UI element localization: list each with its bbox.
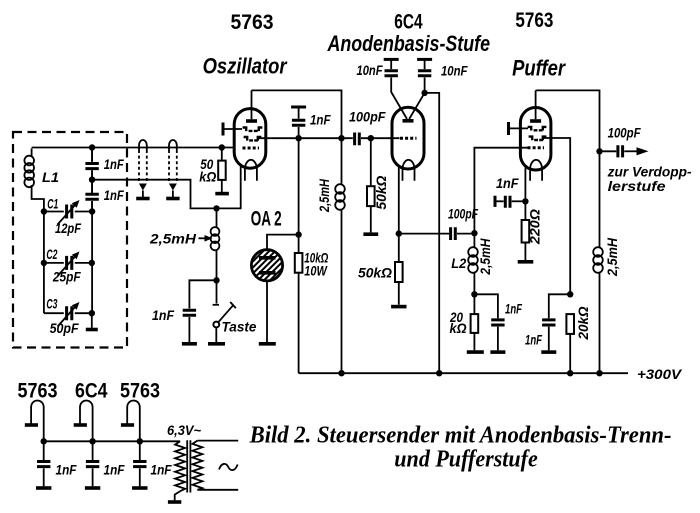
ground (osc grid leak)	[215, 192, 229, 196]
svg-text:10nF: 10nF	[441, 63, 468, 79]
svg-text:100pF: 100pF	[349, 109, 386, 125]
svg-text:5763: 5763	[18, 380, 58, 403]
variable capacitor C3 50pF	[58, 302, 80, 327]
shielded feedthrough 2	[166, 140, 179, 199]
svg-text:Puffer: Puffer	[512, 56, 566, 81]
ground (key)	[208, 342, 225, 346]
node tank tap	[89, 177, 95, 183]
resistor 10kΩ 10W	[295, 253, 303, 373]
capacitor 1nF (heater 1)	[36, 441, 51, 488]
node key junction	[213, 277, 219, 283]
capacitor 1nF (tank lower)	[85, 194, 98, 211]
svg-text:1nF: 1nF	[496, 175, 519, 191]
node grid wire / 50k junction	[219, 144, 225, 150]
capacitor 1nF (key bypass)	[183, 280, 217, 342]
capacitor 1nF (tank upper)	[85, 148, 98, 193]
wire 6C4 cathode output	[399, 233, 449, 235]
ground (6C4 grid)	[363, 232, 378, 236]
resistor 20kΩ (puffer grid leak)	[471, 294, 479, 350]
svg-text:1nF: 1nF	[56, 462, 77, 478]
svg-text:1nF: 1nF	[505, 301, 522, 317]
svg-text:2,5mH: 2,5mH	[604, 237, 620, 277]
capacitor 100pF (output) with arrow zur Verdopplerstufe	[600, 145, 649, 157]
ground (20k)	[467, 350, 484, 354]
svg-text:5763: 5763	[515, 9, 553, 32]
svg-text:12pF: 12pF	[55, 220, 81, 236]
svg-text:L1: L1	[42, 169, 59, 185]
wire oscillator screen row	[257, 137, 353, 139]
svg-text:6C4: 6C4	[75, 380, 108, 403]
svg-text:1nF: 1nF	[525, 332, 542, 348]
svg-text:lerstufe: lerstufe	[608, 178, 666, 194]
capacitor 1nF (heater 3)	[132, 441, 147, 488]
ground (1nF puffer grid)	[490, 350, 505, 354]
heater arch 5763 (left)	[25, 401, 44, 442]
svg-text:20kΩ: 20kΩ	[575, 306, 591, 340]
svg-text:1nF: 1nF	[104, 187, 124, 203]
tube 5763 oscillator	[234, 90, 266, 180]
svg-text:10nF: 10nF	[357, 62, 383, 78]
svg-text:1nF: 1nF	[151, 462, 172, 478]
wire tank tap to cathode	[92, 166, 241, 208]
node B (L2 bottom)	[471, 291, 477, 297]
resistor 50kΩ (oscillator grid leak)	[218, 148, 226, 193]
capacitor 1nF (heater 2)	[85, 441, 100, 488]
svg-text:5763: 5763	[120, 380, 160, 403]
shielded feedthrough 1	[136, 140, 149, 199]
wire tank top	[32, 147, 234, 149]
svg-text:10W: 10W	[304, 263, 328, 279]
wire puffer anode top	[536, 90, 600, 247]
wire tank right rail	[91, 148, 93, 314]
grid terminal bar (puffer)	[509, 122, 529, 135]
node tank top / 1nF junction	[89, 144, 95, 150]
variable capacitor C2 25pF	[58, 252, 80, 277]
svg-text:Oszillator: Oszillator	[203, 54, 288, 79]
svg-text:und Pufferstufe: und Pufferstufe	[394, 446, 538, 472]
wire +300V rail	[299, 372, 628, 374]
svg-text:kΩ: kΩ	[199, 169, 216, 185]
inductor L1	[24, 149, 44, 212]
wire oscillator anode top	[252, 90, 342, 184]
node output tap	[596, 148, 602, 154]
svg-text:Taste: Taste	[222, 319, 257, 335]
heater arch 6C4	[74, 401, 93, 442]
switch Taste	[213, 280, 236, 342]
svg-text:220Ω: 220Ω	[527, 209, 543, 245]
ground (1nF puffer screen)	[541, 350, 556, 354]
svg-text:L2: L2	[451, 255, 466, 271]
node OA2 tap	[295, 231, 301, 237]
wire 6C4 anode supply rail	[425, 93, 440, 373]
capacitor 1nF (oscillator screen bypass)	[291, 107, 306, 138]
svg-text:2,5mH: 2,5mH	[316, 178, 332, 212]
ground (tank C3)	[86, 313, 98, 329]
rf choke 2,5mH (output)	[593, 247, 603, 373]
svg-text:C2: C2	[46, 246, 57, 262]
wire C1 row	[44, 211, 92, 213]
svg-text:Anodenbasis-Stufe: Anodenbasis-Stufe	[327, 31, 490, 56]
tank enclosure dashed box	[13, 132, 127, 348]
svg-text:C3: C3	[46, 296, 57, 312]
svg-text:25pF: 25pF	[52, 269, 81, 285]
svg-text:2,5mH: 2,5mH	[477, 238, 493, 276]
node cathode/choke junction	[213, 205, 219, 211]
svg-text:1nF: 1nF	[310, 112, 331, 128]
node screen/1nF	[295, 135, 301, 141]
capacitor 1nF (puffer grid)	[474, 294, 504, 350]
wire puffer grid riser	[474, 148, 528, 234]
wire screen supply rail	[298, 138, 300, 253]
transformer 6,3V heater	[168, 440, 238, 502]
ground (6C4 cathode)	[391, 305, 406, 309]
inductor L2	[468, 233, 478, 294]
node 10nF / anode supply	[421, 90, 427, 96]
node anode rail tap	[338, 135, 344, 141]
node 6C4 cathode	[396, 230, 402, 236]
svg-text:1nF: 1nF	[104, 156, 124, 172]
resistor 220Ω (puffer cathode)	[522, 201, 530, 260]
wire C3 row	[44, 312, 92, 314]
capacitor 100pF (oscillator to 6C4)	[355, 133, 400, 146]
svg-text:1nF: 1nF	[104, 462, 125, 478]
capacitor 100pF (6C4 to L2)	[451, 227, 475, 240]
grid terminal bar (oscillator)	[223, 123, 242, 136]
svg-text:5763: 5763	[231, 11, 274, 34]
wire tank left rail	[43, 212, 45, 314]
svg-text:100pF: 100pF	[608, 125, 641, 141]
node puffer cathode	[522, 198, 528, 204]
ground (OA2)	[259, 342, 276, 346]
rf choke 2,5mH (oscillator anode)	[335, 184, 345, 373]
ac symbol	[219, 464, 238, 470]
wire puffer screen	[543, 138, 570, 294]
svg-text:50kΩ: 50kΩ	[373, 176, 389, 210]
capacitor 10nF (right, 6C4 anode bypass)	[409, 59, 432, 119]
ground (key bypass)	[182, 342, 197, 346]
node puffer screen / 20k	[567, 291, 573, 297]
capacitor 1nF (puffer screen bypass)	[542, 294, 570, 350]
capacitor 10nF (left, 6C4 anode bypass)	[384, 59, 407, 119]
svg-text:Bild 2. Steuersender mit Anode: Bild 2. Steuersender mit Anodenbasis-Tre…	[249, 423, 672, 449]
heater arch 5763 (right)	[121, 401, 140, 442]
wire C2 row	[44, 262, 92, 264]
svg-text:OA 2: OA 2	[251, 207, 282, 230]
resistor 20kΩ (puffer screen)	[566, 314, 574, 373]
svg-text:+300V: +300V	[637, 366, 683, 382]
resistor 50kΩ (6C4 cathode)	[395, 234, 403, 305]
node A (puffer grid)	[471, 230, 477, 236]
svg-text:1nF: 1nF	[152, 307, 174, 323]
rf choke 2,5mH (oscillator cathode)	[211, 208, 220, 280]
svg-text:kΩ: kΩ	[450, 320, 467, 336]
capacitor 1nF (puffer cathode)	[495, 196, 525, 208]
svg-text:50kΩ: 50kΩ	[358, 265, 392, 281]
svg-text:C1: C1	[47, 196, 58, 212]
variable capacitor C1 12pF	[58, 200, 80, 225]
tube 6C4	[392, 107, 424, 233]
wire heater rail	[44, 440, 180, 442]
tube 5763 puffer	[520, 90, 551, 201]
svg-text:2,5mH: 2,5mH	[149, 231, 197, 247]
voltage regulator OA2	[251, 231, 299, 342]
node 6C4 grid junction	[368, 135, 374, 141]
svg-text:50pF: 50pF	[50, 320, 79, 336]
svg-text:6,3V~: 6,3V~	[167, 422, 201, 438]
ground (220Ω)	[518, 260, 534, 264]
resistor 50kΩ (6C4 grid)	[367, 138, 375, 232]
